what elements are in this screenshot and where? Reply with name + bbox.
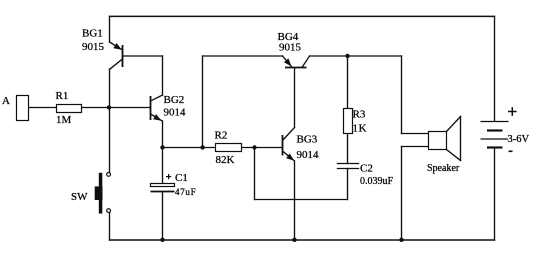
svg-text:9014: 9014 (164, 107, 187, 119)
svg-text:SW: SW (71, 191, 88, 203)
svg-text:82K: 82K (216, 154, 235, 166)
svg-text:9015: 9015 (82, 41, 105, 53)
svg-text:BG3: BG3 (297, 134, 318, 146)
svg-text:C2: C2 (360, 163, 373, 175)
svg-text:BG2: BG2 (164, 94, 185, 106)
svg-text:R1: R1 (56, 90, 69, 102)
svg-text:47uF: 47uF (175, 187, 196, 197)
svg-text:Speaker: Speaker (427, 163, 460, 174)
svg-text:9015: 9015 (279, 42, 302, 54)
svg-text:R3: R3 (353, 109, 366, 121)
svg-text:C1: C1 (175, 172, 188, 184)
svg-text:3-6V: 3-6V (508, 134, 530, 145)
svg-text:R2: R2 (215, 130, 228, 142)
svg-text:0.039uF: 0.039uF (360, 176, 394, 187)
svg-text:1K: 1K (353, 123, 368, 135)
svg-text:1M: 1M (56, 114, 72, 126)
svg-text:9014: 9014 (297, 149, 320, 161)
svg-text:BG1: BG1 (82, 28, 103, 40)
svg-text:A: A (2, 95, 10, 107)
